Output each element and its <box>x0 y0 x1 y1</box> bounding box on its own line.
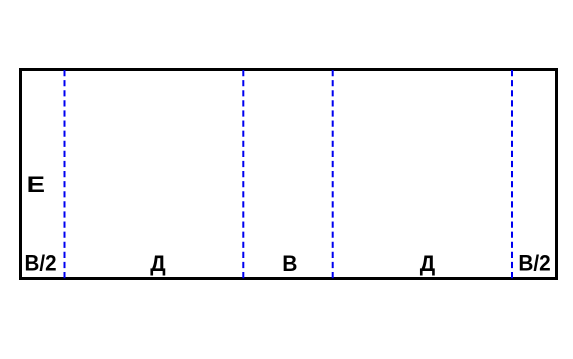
svg-text:В/2: В/2 <box>518 251 550 276</box>
svg-text:Е: Е <box>27 173 45 198</box>
fold line 1 (left В/2 | Д) <box>64 70 66 279</box>
fold line 4 (Д | right В/2) <box>511 70 513 279</box>
fold line 2 (Д | В) <box>242 70 244 279</box>
svg-text:В: В <box>282 250 297 276</box>
fold line 3 (В | Д) <box>332 70 334 279</box>
svg-text:Д: Д <box>150 251 166 276</box>
svg-text:Д: Д <box>420 251 436 276</box>
svg-text:В/2: В/2 <box>24 251 56 276</box>
pattern outline rectangle <box>21 70 557 279</box>
